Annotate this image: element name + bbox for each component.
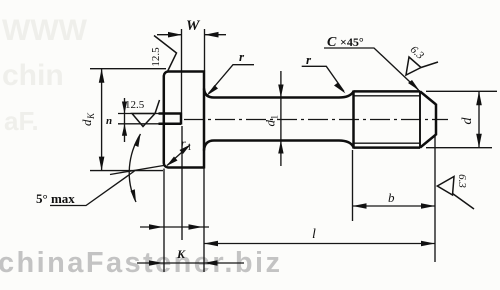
svg-text:6.3: 6.3 xyxy=(456,174,468,188)
svg-text:l: l xyxy=(312,227,316,242)
svg-text:K: K xyxy=(86,112,96,120)
svg-text:1: 1 xyxy=(270,115,280,120)
svg-text:d: d xyxy=(263,120,278,127)
svg-text:d: d xyxy=(460,117,475,125)
svg-text:12.5: 12.5 xyxy=(125,99,145,111)
svg-text:K: K xyxy=(176,247,186,261)
svg-text:b: b xyxy=(388,190,395,205)
svg-text:W: W xyxy=(186,18,201,34)
svg-text:r: r xyxy=(181,136,186,150)
svg-text:×45°: ×45° xyxy=(340,35,364,49)
svg-text:WWW: WWW xyxy=(2,14,88,47)
svg-text:d: d xyxy=(79,119,94,126)
svg-text:chin: chin xyxy=(2,59,64,92)
svg-text:n: n xyxy=(106,115,112,127)
svg-text:1: 1 xyxy=(187,142,192,152)
svg-text:C: C xyxy=(327,35,337,50)
svg-text:5° max: 5° max xyxy=(36,191,75,206)
svg-text:12.5: 12.5 xyxy=(150,47,162,67)
svg-text:aF.: aF. xyxy=(4,106,39,136)
